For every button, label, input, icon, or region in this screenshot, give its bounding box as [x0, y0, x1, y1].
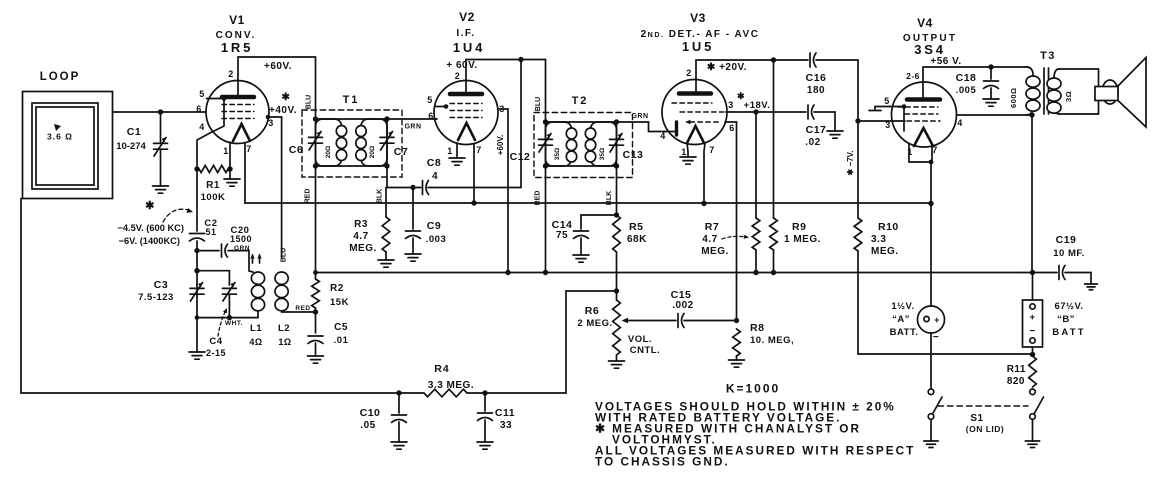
svg-text:C8: C8: [427, 157, 441, 169]
svg-text:BATT: BATT: [1052, 327, 1085, 338]
svg-text:20Ω: 20Ω: [325, 146, 332, 158]
node C9 junction: [410, 185, 415, 190]
wire V4 plate2 to T3: [957, 114, 1033, 116]
svg-text:T3: T3: [1040, 50, 1056, 62]
capacitor C14 75: [552, 215, 617, 262]
svg-text:T2: T2: [572, 95, 589, 107]
potentiometer R6 2 MEG volume control: [577, 291, 660, 368]
wire V4 pin5 stub: [869, 107, 904, 111]
svg-text:✱ +20V.: ✱ +20V.: [707, 62, 747, 73]
svg-text:MEG.: MEG.: [349, 243, 377, 254]
svg-text:TO CHASSIS GND.: TO CHASSIS GND.: [595, 455, 730, 469]
svg-text:1U4: 1U4: [453, 40, 485, 55]
node R8 junction: [734, 318, 739, 323]
svg-text:C1: C1: [127, 126, 141, 138]
svg-text:.002: .002: [672, 300, 693, 311]
svg-text:(ON LID): (ON LID): [966, 424, 1004, 434]
wire V1 pin4 grid: [197, 133, 210, 169]
svg-text:−6V. (1400KC): −6V. (1400KC): [119, 236, 180, 246]
svg-text:+56 V.: +56 V.: [930, 56, 961, 67]
capacitor C3 7.5-123: [138, 279, 204, 303]
svg-text:BATT.: BATT.: [890, 327, 919, 338]
node V2 screen junction: [505, 270, 510, 275]
capacitor C16 180: [806, 53, 858, 96]
wire BLK line with C8: [387, 187, 421, 189]
wire A+ filament bus: [245, 202, 931, 204]
svg-text:−: −: [933, 332, 939, 343]
svg-text:C4: C4: [209, 336, 222, 347]
node C1 junction: [158, 109, 163, 114]
svg-text:VOL.: VOL.: [628, 334, 652, 345]
svg-text:✱: ✱: [282, 92, 291, 103]
svg-text:BLU: BLU: [535, 97, 542, 111]
wire A- to switch: [930, 333, 932, 389]
node C11 junction: [482, 390, 487, 395]
capacitor C4 2-15: [197, 271, 243, 358]
svg-text:4: 4: [660, 131, 666, 141]
svg-text:3Ω: 3Ω: [1064, 91, 1073, 102]
svg-text:BLU: BLU: [306, 95, 313, 109]
node C18 tap: [988, 64, 993, 69]
svg-text:2-15: 2-15: [206, 348, 226, 358]
svg-text:C12: C12: [510, 151, 531, 163]
wire -7V bias rail: [857, 60, 859, 218]
ground: [609, 361, 625, 368]
node T2 BLK / R5 junction: [614, 212, 619, 217]
svg-text:.01: .01: [334, 335, 349, 346]
svg-text:1U5: 1U5: [682, 39, 714, 54]
svg-text:4Ω: 4Ω: [249, 337, 262, 347]
wire V1 pin7 filament to A+ bus: [244, 143, 246, 203]
svg-text:1R5: 1R5: [221, 40, 253, 55]
svg-text:+60V.: +60V.: [496, 135, 505, 155]
svg-text:1½V.: 1½V.: [891, 301, 914, 312]
ground: [1085, 284, 1098, 290]
svg-text:L1: L1: [250, 323, 262, 334]
svg-text:6: 6: [196, 104, 202, 114]
ground: [308, 356, 324, 363]
node C10 junction: [396, 390, 401, 395]
svg-text:R1: R1: [206, 180, 220, 191]
resistor R1 100K: [194, 165, 232, 203]
wire T1 secondary BLK down: [386, 166, 388, 188]
node R9 junction: [771, 270, 776, 275]
svg-text:2: 2: [686, 68, 692, 78]
svg-text:+: +: [1029, 312, 1035, 323]
capacitor C8 4: [423, 157, 442, 195]
capacitor C18 .005: [956, 67, 999, 106]
svg-text:S1: S1: [970, 413, 983, 424]
svg-text:5: 5: [427, 95, 433, 105]
svg-text:2-6: 2-6: [906, 71, 920, 81]
node B+ battery junction: [1030, 270, 1035, 275]
ground V3 cathode: [680, 142, 696, 164]
wire V4 filament pins to A+ bus: [909, 144, 932, 162]
adjustment arrows: [253, 255, 260, 263]
svg-text:C6: C6: [289, 144, 303, 156]
capacitor C2 51: [190, 218, 218, 241]
svg-text:3.3: 3.3: [871, 234, 886, 245]
svg-text:C19: C19: [1056, 234, 1077, 246]
svg-text:1Ω: 1Ω: [278, 337, 291, 347]
svg-text:R11: R11: [1007, 364, 1026, 375]
svg-text:4.7: 4.7: [702, 234, 717, 245]
node +60V tap: [518, 57, 523, 62]
svg-text:K=1000: K=1000: [726, 382, 780, 396]
svg-text:75: 75: [556, 230, 568, 241]
svg-text:10-274: 10-274: [116, 141, 146, 152]
wire T2 secondary BLK down: [616, 166, 618, 215]
ground: [573, 255, 589, 262]
svg-text:BLU: BLU: [281, 248, 288, 262]
svg-text:R9: R9: [792, 221, 806, 233]
svg-text:15K: 15K: [330, 297, 349, 308]
svg-text:51: 51: [205, 227, 216, 237]
svg-text:R4: R4: [434, 363, 449, 375]
svg-text:R10: R10: [878, 221, 899, 233]
node R9 tap: [771, 57, 776, 62]
switch S1 (on lid): [924, 389, 1044, 447]
ground oscillator: [189, 318, 205, 360]
svg-text:6: 6: [729, 123, 735, 133]
wire V1 plate +60V to T1: [238, 57, 316, 110]
svg-text:MEG.: MEG.: [701, 246, 729, 257]
resistor R10 3.3 MEG: [854, 218, 1032, 354]
svg-text:R5: R5: [629, 221, 643, 233]
svg-text:C10: C10: [360, 407, 381, 419]
wire oscillator bottom: [197, 285, 258, 318]
ground: [729, 360, 745, 367]
svg-text:R7: R7: [705, 221, 719, 233]
svg-text:5: 5: [884, 96, 890, 106]
svg-text:1: 1: [447, 146, 453, 156]
svg-text:C13: C13: [623, 149, 644, 161]
svg-text:10. MEG,: 10. MEG,: [750, 335, 794, 346]
ground: [391, 442, 407, 449]
ground: [827, 131, 843, 138]
svg-text:3.3 MEG.: 3.3 MEG.: [428, 380, 474, 391]
svg-text:BLK: BLK: [377, 189, 384, 203]
ground: [153, 186, 169, 193]
ground: [224, 179, 240, 186]
node C4 branch: [194, 268, 199, 273]
capacitor C20 1500 GRN: [197, 225, 253, 272]
transformer T3: [1009, 50, 1099, 115]
capacitor C10 .05: [360, 393, 407, 449]
svg-text:1 MEG.: 1 MEG.: [784, 234, 821, 245]
svg-text:.003: .003: [426, 234, 447, 245]
capacitor C11 33: [477, 393, 515, 449]
svg-text:MEG.: MEG.: [871, 246, 899, 257]
svg-text:C3: C3: [154, 279, 168, 291]
wire V2 screen to B+ bus: [498, 109, 509, 273]
node A+ bus end: [928, 201, 933, 206]
svg-text:I.F.: I.F.: [456, 28, 475, 39]
resistor R9 1 MEG: [770, 60, 821, 273]
svg-text:1: 1: [681, 147, 687, 157]
node C20 branch: [194, 248, 199, 253]
wire +60V tap to C8: [520, 60, 522, 188]
capacitor C17 .02: [805, 105, 843, 148]
node T3 primary return: [1029, 112, 1034, 117]
tube V4 3S4 output: [884, 16, 963, 157]
wire V2 pin7 filament: [473, 144, 475, 203]
svg-text:V3: V3: [690, 11, 706, 25]
svg-text:−4.5V. (600 KC): −4.5V. (600 KC): [117, 223, 184, 233]
svg-text:T1: T1: [343, 94, 360, 106]
svg-text:GRN: GRN: [404, 124, 421, 131]
svg-text:.005: .005: [956, 85, 977, 96]
wire loop to V1 grid: [113, 111, 207, 113]
wire B+ to battery: [1032, 273, 1034, 304]
svg-text:2: 2: [228, 69, 234, 79]
svg-text:+18V.: +18V.: [744, 100, 771, 111]
wire B+ bus: [316, 272, 1058, 274]
svg-text:C18: C18: [956, 72, 977, 84]
svg-text:7.5-123: 7.5-123: [138, 292, 174, 303]
svg-text:100K: 100K: [201, 192, 226, 203]
svg-text:1: 1: [223, 146, 229, 156]
svg-text:+40V.: +40V.: [269, 105, 297, 116]
resistor R7 4.7 MEG: [701, 112, 760, 273]
svg-text:.05: .05: [360, 420, 375, 431]
capacitor C1 10-274: [116, 112, 168, 193]
svg-text:6: 6: [428, 111, 434, 121]
node V3 filament junction: [701, 201, 706, 206]
inductor L2 1ohm: [275, 272, 315, 347]
wire V3 grid to C15/R8: [725, 122, 737, 321]
capacitor C5 .01: [308, 312, 349, 363]
svg-text:R3: R3: [354, 219, 368, 230]
svg-text:35Ω: 35Ω: [554, 148, 561, 160]
svg-text:2: 2: [455, 71, 461, 81]
battery A 1.5V: [890, 301, 945, 343]
svg-text:✱ −7V.: ✱ −7V.: [846, 151, 855, 176]
tube V1 1R5 converter: [196, 13, 274, 156]
wire A+ vertical: [930, 204, 932, 307]
svg-text:35Ω: 35Ω: [599, 148, 606, 160]
note voltage disclaimer: [595, 400, 915, 469]
ground: [405, 254, 421, 261]
transformer T2: [510, 95, 644, 273]
svg-text:R6: R6: [585, 305, 599, 317]
wire V3 plate +20V line: [696, 60, 808, 80]
svg-text:RED: RED: [295, 305, 310, 312]
tube V3 1U5 detector: [641, 11, 760, 157]
svg-text:+60V.: +60V.: [264, 61, 292, 72]
speaker: [1095, 58, 1146, 128]
svg-text:4: 4: [199, 122, 205, 132]
wire grid column: [196, 169, 198, 231]
node R7 junction: [753, 270, 758, 275]
svg-text:68K: 68K: [627, 234, 647, 245]
svg-text:GRN: GRN: [631, 113, 648, 120]
ground V1 cathode: [224, 169, 240, 186]
svg-text:V2: V2: [459, 10, 475, 24]
svg-text:820: 820: [1007, 376, 1025, 387]
svg-text:3: 3: [268, 118, 274, 128]
svg-text:+ 60V.: + 60V.: [446, 60, 477, 71]
svg-text:1500: 1500: [230, 234, 252, 244]
ground: [924, 441, 938, 447]
svg-text:LOOP: LOOP: [40, 71, 81, 83]
svg-text:4: 4: [432, 171, 438, 182]
svg-text:4.7: 4.7: [353, 231, 368, 242]
svg-text:1: 1: [907, 147, 913, 157]
svg-text:7: 7: [709, 145, 715, 155]
svg-text:67½V.: 67½V.: [1054, 301, 1083, 312]
svg-text:C7: C7: [394, 146, 408, 158]
wire V1 pin1: [229, 142, 231, 169]
svg-text:WHT.: WHT.: [225, 320, 243, 327]
svg-text:CNTL.: CNTL.: [630, 345, 660, 356]
wire T3 primary to B+ bus: [1031, 115, 1033, 273]
svg-text:180: 180: [807, 85, 825, 96]
svg-text:V4: V4: [917, 16, 933, 30]
wire GRN T1 to V2 grid: [387, 118, 437, 120]
svg-text:V1: V1: [229, 13, 245, 27]
wire loop return / AVC line: [21, 199, 424, 394]
wire V3 plate out +18V: [726, 111, 806, 113]
svg-text:3.6 Ω: 3.6 Ω: [47, 132, 73, 142]
inductor L1 4ohm: [249, 272, 264, 347]
svg-text:✱: ✱: [145, 200, 155, 212]
svg-text:C9: C9: [427, 220, 441, 232]
capacitor C9 .003: [405, 188, 446, 262]
svg-text:10 MF.: 10 MF.: [1053, 248, 1085, 259]
svg-text:RED: RED: [305, 189, 312, 204]
svg-text:+: +: [934, 315, 940, 325]
resistor R2 15K: [312, 271, 349, 312]
svg-text:600Ω: 600Ω: [1009, 87, 1018, 108]
svg-text:C17: C17: [806, 124, 827, 136]
resistor R5 68K: [613, 215, 647, 291]
ground: [680, 157, 696, 164]
resistor R4 3.3 MEG: [424, 363, 474, 397]
capacitor C19 10 MF: [1053, 234, 1097, 290]
wire V2 plate +60V to T2: [466, 60, 546, 113]
svg-text:R8: R8: [750, 322, 764, 334]
svg-text:L2: L2: [278, 323, 290, 334]
tube V2 1U4 IF: [427, 10, 505, 156]
ground: [378, 260, 394, 267]
svg-text:5: 5: [199, 89, 205, 99]
wire V4 grid to -7V rail: [858, 120, 905, 122]
ground: [449, 158, 465, 165]
svg-text:.02: .02: [805, 137, 820, 148]
svg-text:7: 7: [476, 145, 482, 155]
battery B 67.5V: [1023, 300, 1086, 347]
svg-text:“B”: “B”: [1057, 314, 1075, 325]
svg-text:7: 7: [246, 144, 252, 154]
svg-text:GRN: GRN: [234, 245, 250, 252]
ground V2 cathode: [449, 143, 465, 165]
svg-text:33: 33: [500, 420, 512, 431]
wire V1 pin3 to oscillator coil L2: [268, 117, 282, 258]
resistor R11 820: [1007, 356, 1037, 387]
node T1 feed junction: [313, 270, 318, 275]
node R6 top: [614, 288, 619, 293]
resistor R3 4.7 MEG: [349, 188, 394, 268]
svg-text:3S4: 3S4: [914, 42, 946, 57]
resistor R8 10 MEG: [729, 322, 795, 367]
ground: [983, 99, 999, 106]
svg-text:C11: C11: [495, 407, 515, 419]
svg-text:7: 7: [932, 145, 938, 155]
svg-text:2 MEG.: 2 MEG.: [577, 318, 612, 329]
ground: [477, 442, 493, 449]
svg-text:R2: R2: [330, 283, 344, 294]
svg-text:C5: C5: [334, 322, 348, 333]
svg-text:C16: C16: [806, 72, 827, 84]
svg-text:20Ω: 20Ω: [369, 146, 376, 158]
svg-text:“A”: “A”: [892, 314, 910, 325]
svg-text:−: −: [1029, 326, 1035, 337]
node V2 filament junction: [471, 200, 476, 205]
loop antenna LOOP: [23, 71, 113, 199]
node bias junction: [1030, 352, 1035, 357]
svg-text:4: 4: [957, 118, 963, 128]
transformer T1: [289, 94, 408, 271]
ground: [189, 352, 205, 359]
node T2 feed junction: [543, 270, 548, 275]
svg-text:3: 3: [728, 100, 734, 110]
ground: [1025, 441, 1039, 447]
capacitor C15 .002: [622, 289, 737, 328]
wire GRN T2 to V3 diode: [617, 122, 670, 132]
wire V4 plate +56V: [923, 67, 1028, 82]
node V4 grid tap: [855, 118, 860, 123]
wire B- down: [1032, 347, 1034, 355]
note oscillator grid voltage: [117, 200, 193, 246]
wire V3 pin7 filament: [704, 143, 705, 204]
